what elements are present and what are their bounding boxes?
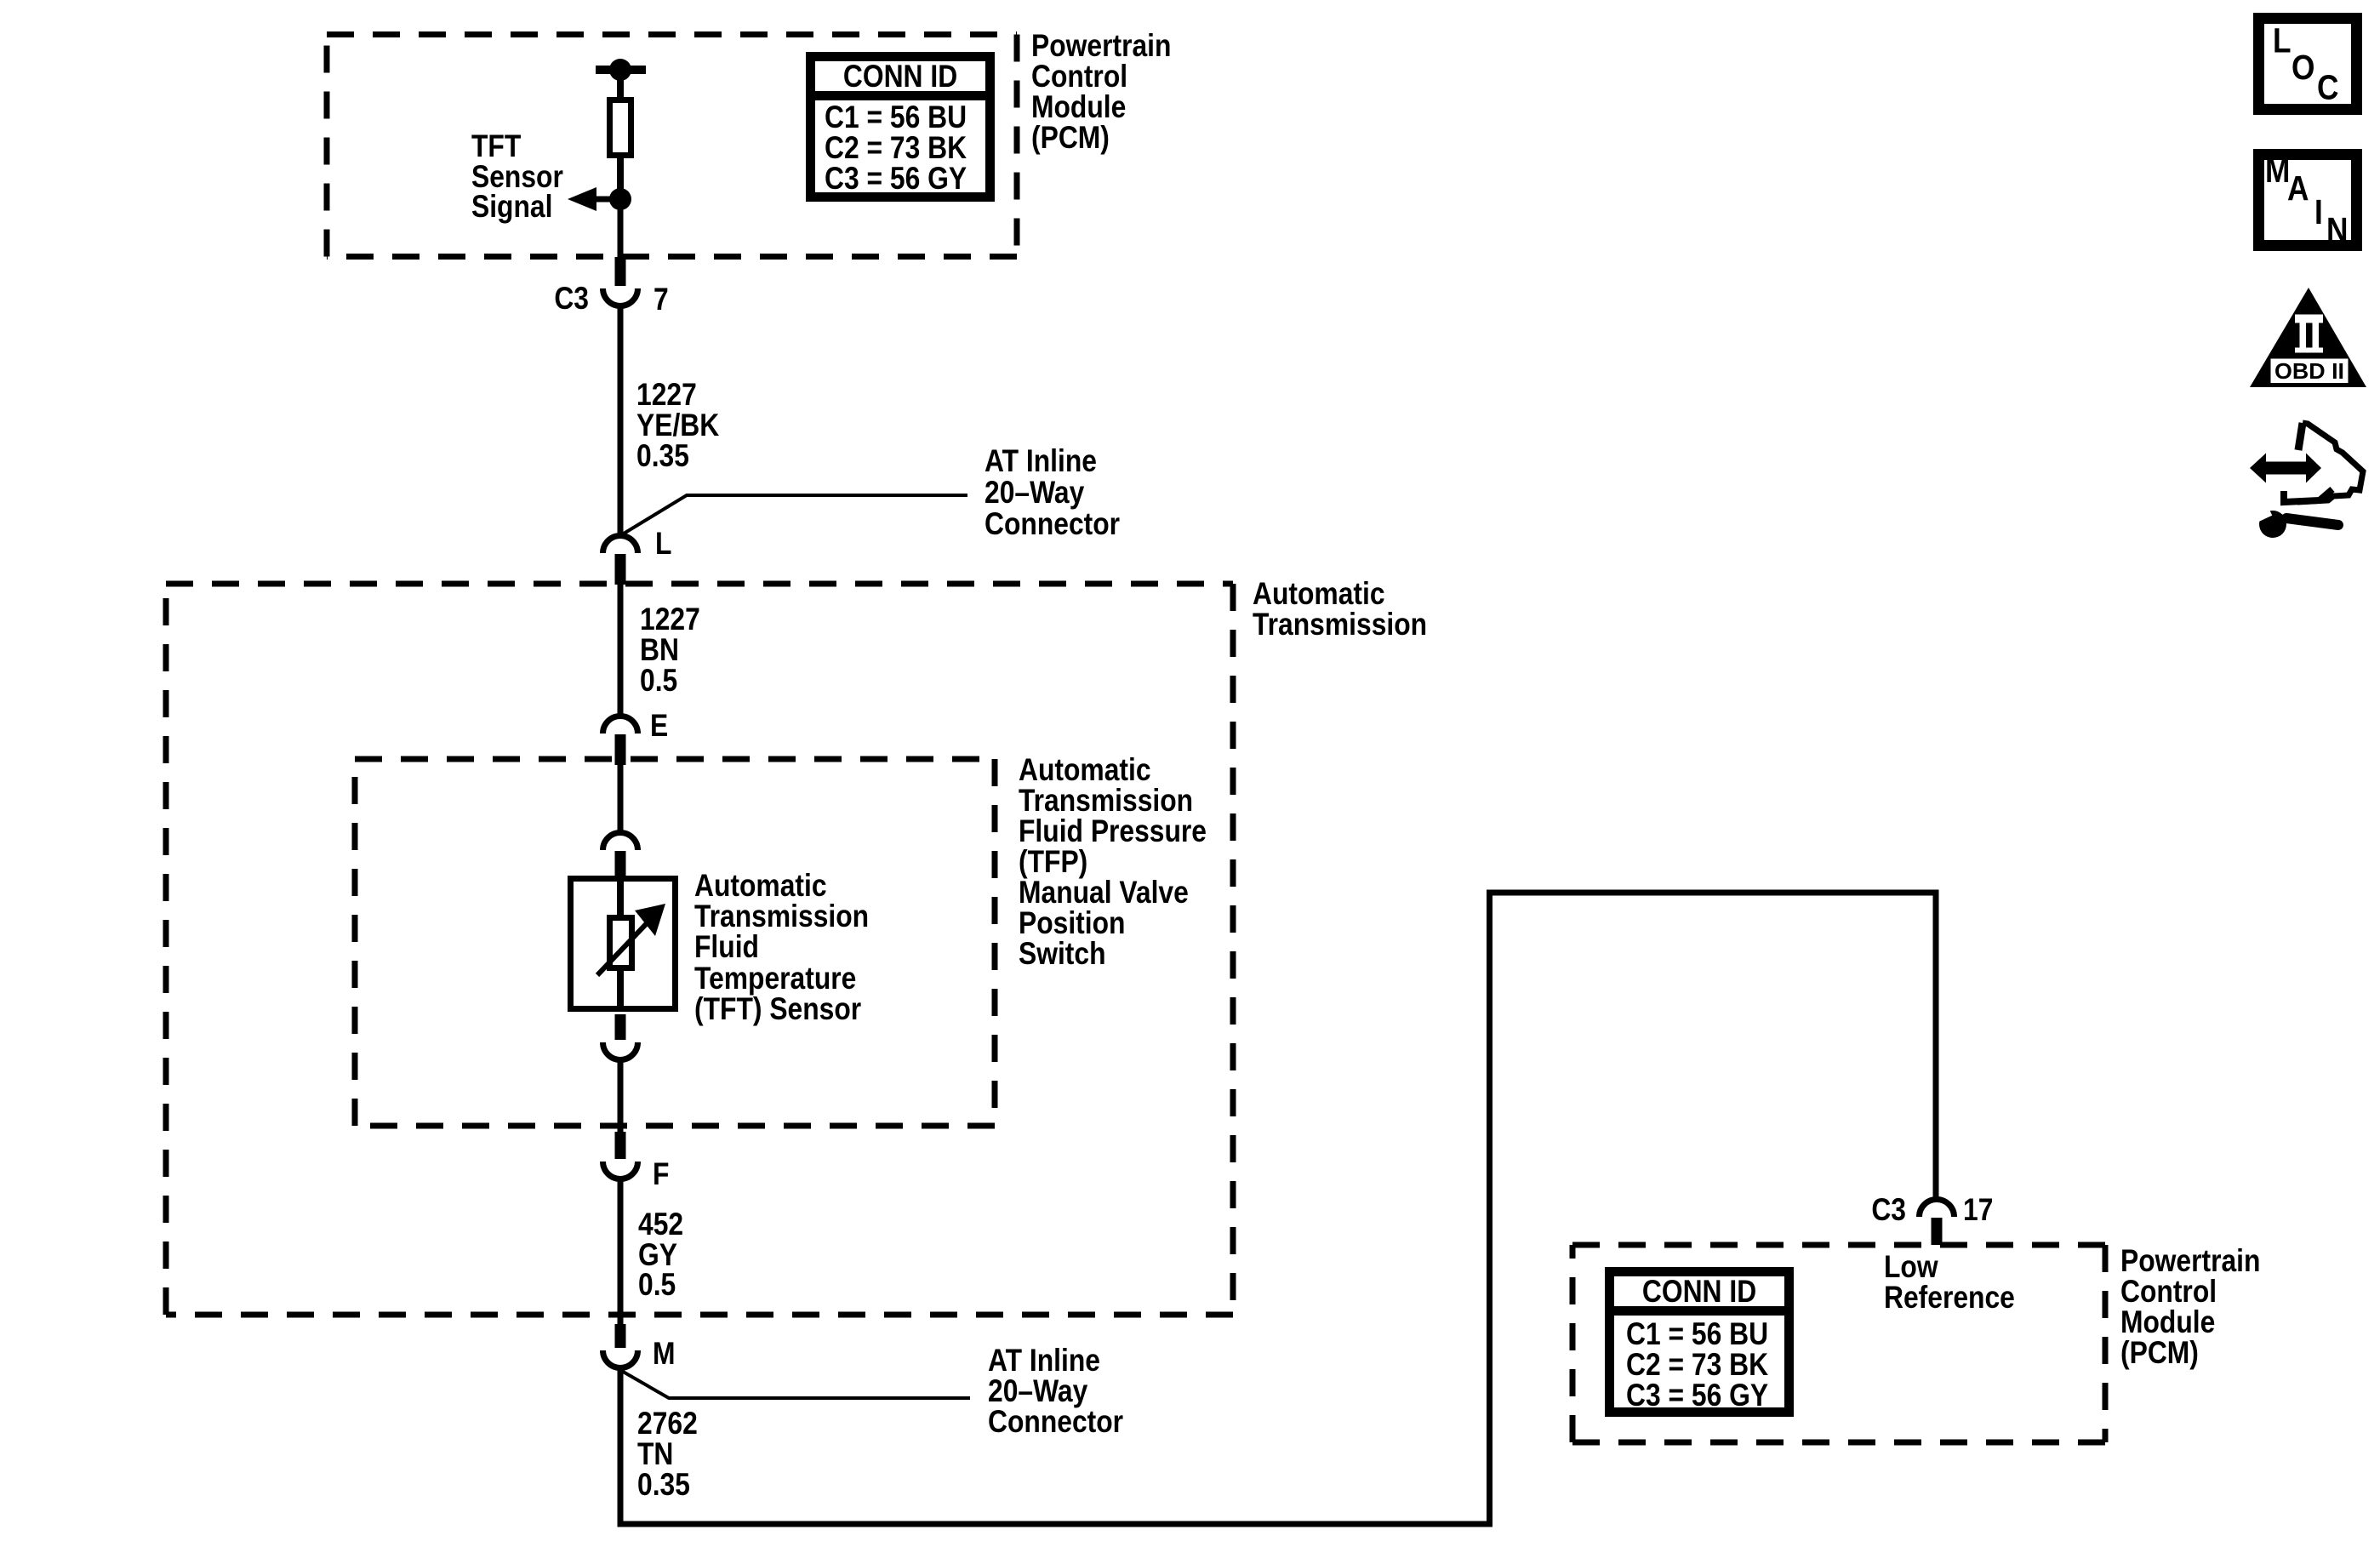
svg-text:YE/BK: YE/BK [636, 408, 719, 443]
svg-text:Transmission: Transmission [1253, 608, 1427, 642]
svg-text:BN: BN [640, 633, 679, 668]
svg-text:I: I [2314, 193, 2323, 232]
svg-text:0.35: 0.35 [637, 1468, 690, 1503]
wire top horizontal run [1487, 890, 1936, 896]
svg-text:Fluid: Fluid [694, 930, 759, 965]
sensor bottom cup (female) [603, 1042, 638, 1060]
svg-text:N: N [2326, 211, 2348, 250]
thermistor element [610, 918, 632, 968]
svg-text:Switch: Switch [1019, 937, 1106, 972]
svg-text:Temperature: Temperature [694, 962, 856, 996]
label: Automatic Transmission Fluid Pressure (TFP) Manual Valve Position Switch [1019, 753, 1207, 972]
wire tap to C3 pin [618, 209, 624, 257]
svg-text:0.5: 0.5 [638, 1268, 676, 1303]
node: internal 5V rail bar [596, 66, 646, 74]
TFT sensor signal arrow [596, 197, 620, 203]
svg-text:Control: Control [1031, 60, 1127, 94]
thermistor arrow (variable) [597, 921, 649, 975]
resistor (PCM pull-up) [610, 100, 631, 156]
svg-text:20–Way: 20–Way [988, 1374, 1087, 1409]
LOC icon box [2259, 19, 2357, 110]
svg-text:Signal: Signal [471, 190, 552, 225]
svg-text:Automatic: Automatic [1253, 577, 1385, 612]
MAIN icon box [2259, 151, 2357, 250]
connector C3/17 cap (female) [1920, 1200, 1955, 1218]
svg-text:17: 17 [1963, 1193, 1993, 1228]
wire down to PCM C3 17 [1933, 890, 1939, 1199]
svg-text:C: C [2317, 68, 2338, 107]
svg-text:Automatic: Automatic [694, 869, 827, 904]
wrench [2259, 511, 2286, 538]
CONN ID table (bottom) [1607, 1272, 1791, 1413]
pin L (male) [615, 554, 626, 585]
svg-text:CONN ID: CONN ID [843, 60, 957, 94]
connector C3 cup (female) [603, 288, 638, 306]
svg-text:20–Way: 20–Way [985, 476, 1084, 511]
svg-text:1227: 1227 [640, 602, 700, 637]
svg-text:C3 = 56 GY: C3 = 56 GY [825, 162, 967, 197]
svg-text:1227: 1227 [636, 378, 697, 413]
svg-text:C2 = 73 BK: C2 = 73 BK [1626, 1348, 1768, 1383]
pin E (male) [615, 734, 626, 765]
svg-text:(PCM): (PCM) [2120, 1336, 2199, 1371]
svg-text:452: 452 [638, 1207, 683, 1242]
wire resistor to tap [617, 157, 624, 194]
svg-text:OBD II: OBD II [2274, 358, 2344, 384]
svg-text:Powertrain: Powertrain [2120, 1244, 2260, 1279]
pin 17 (male) [1932, 1218, 1943, 1245]
CONN ID table (top) [808, 57, 992, 197]
svg-text:E: E [650, 709, 668, 744]
svg-text:(TFP): (TFP) [1019, 845, 1087, 880]
wire M down to bottom run [618, 1367, 624, 1524]
svg-text:C2 = 73 BK: C2 = 73 BK [825, 131, 967, 166]
svg-text:Low: Low [1884, 1250, 1938, 1285]
junction dot on rail [609, 59, 631, 81]
svg-text:Reference: Reference [1884, 1281, 2015, 1316]
svg-text:Powertrain: Powertrain [1031, 29, 1171, 64]
svg-text:L: L [2273, 21, 2292, 60]
wire up right side [1487, 890, 1492, 1527]
svg-text:C3: C3 [1871, 1193, 1906, 1228]
TFT sensor box [571, 879, 676, 1009]
wire E to sensor [618, 765, 624, 832]
connector M cup (female) [603, 1350, 638, 1368]
leader line to AT inline connector (top) [624, 495, 967, 534]
wire 1227 YE/BK 0.35 [618, 306, 624, 534]
svg-text:Transmission: Transmission [694, 899, 869, 934]
svg-text:Module: Module [1031, 90, 1126, 125]
label: Powertrain Control Module (PCM) top [1031, 29, 1171, 156]
svg-text:M: M [653, 1337, 676, 1372]
svg-text:Control: Control [2120, 1275, 2217, 1310]
svg-text:0.5: 0.5 [640, 664, 677, 699]
svg-text:C3 = 56 GY: C3 = 56 GY [1626, 1378, 1768, 1413]
svg-text:Fluid Pressure: Fluid Pressure [1019, 814, 1207, 849]
pin M (male) [615, 1324, 626, 1348]
svg-text:C1 = 56 BU: C1 = 56 BU [825, 100, 967, 135]
leader line to AT inline connector (bottom) [619, 1369, 970, 1398]
wire rail to resistor [617, 70, 624, 99]
double arrow [2250, 454, 2266, 483]
svg-text:TN: TN [637, 1437, 673, 1472]
junction dot (TFT signal tap) [609, 188, 631, 210]
OBD II triangle icon [2250, 288, 2366, 387]
svg-text:(PCM): (PCM) [1031, 121, 1110, 156]
pin 7 (male pin at PCM C3) [615, 257, 626, 286]
label: Automatic Transmission Fluid Temperature (TFT) Sensor [694, 869, 869, 1027]
svg-text:0.35: 0.35 [636, 439, 689, 474]
svg-text:Automatic: Automatic [1019, 753, 1151, 788]
svg-text:C1 = 56 BU: C1 = 56 BU [1626, 1317, 1768, 1352]
svg-text:Manual Valve: Manual Valve [1019, 876, 1189, 910]
sensor top cap (female) [603, 832, 638, 850]
svg-text:CONN ID: CONN ID [1642, 1275, 1756, 1310]
svg-text:2762: 2762 [637, 1407, 698, 1441]
svg-text:L: L [655, 527, 671, 562]
svg-text:A: A [2287, 169, 2309, 208]
connector E cap (female) [603, 716, 638, 733]
Automatic Transmission dashed box [166, 584, 1233, 1315]
svg-text:AT Inline: AT Inline [988, 1344, 1100, 1378]
svg-text:M: M [2265, 151, 2290, 191]
svg-text:C3: C3 [554, 282, 589, 317]
wire below thermistor [617, 969, 624, 1012]
svg-text:O: O [2292, 49, 2314, 88]
svg-text:Module: Module [2120, 1305, 2215, 1340]
svg-text:Connector: Connector [988, 1405, 1123, 1440]
pin F (male) [615, 1132, 626, 1159]
connector outline [2298, 423, 2303, 450]
svg-text:7: 7 [654, 283, 669, 317]
bottom horizontal wire run [618, 1521, 1493, 1527]
label: Powertrain Control Module (PCM) bottom [2120, 1244, 2260, 1371]
sensor top pin (male) [615, 851, 626, 878]
svg-text:TFT: TFT [471, 129, 521, 164]
wire into thermistor [617, 882, 624, 917]
PCM module dashed box (bottom) [1572, 1245, 2105, 1442]
wire 452 GY 0.5 [618, 1179, 624, 1326]
wire 1227 BN 0.5 [618, 585, 624, 716]
TFP manual valve position switch dashed box [355, 759, 995, 1126]
sensor bottom pin (male) [615, 1014, 626, 1040]
svg-text:Position: Position [1019, 906, 1125, 941]
connector L cap (female) [603, 535, 638, 553]
svg-text:AT Inline: AT Inline [985, 444, 1097, 479]
svg-text:F: F [653, 1157, 669, 1192]
connector F cup (female) [603, 1162, 638, 1179]
wire to F [618, 1060, 624, 1133]
svg-text:Connector: Connector [985, 507, 1120, 542]
PCM module dashed box (top) [327, 35, 1017, 257]
svg-text:(TFT) Sensor: (TFT) Sensor [694, 992, 861, 1027]
svg-text:Transmission: Transmission [1019, 784, 1193, 819]
data link connector / service icon [2250, 423, 2363, 538]
